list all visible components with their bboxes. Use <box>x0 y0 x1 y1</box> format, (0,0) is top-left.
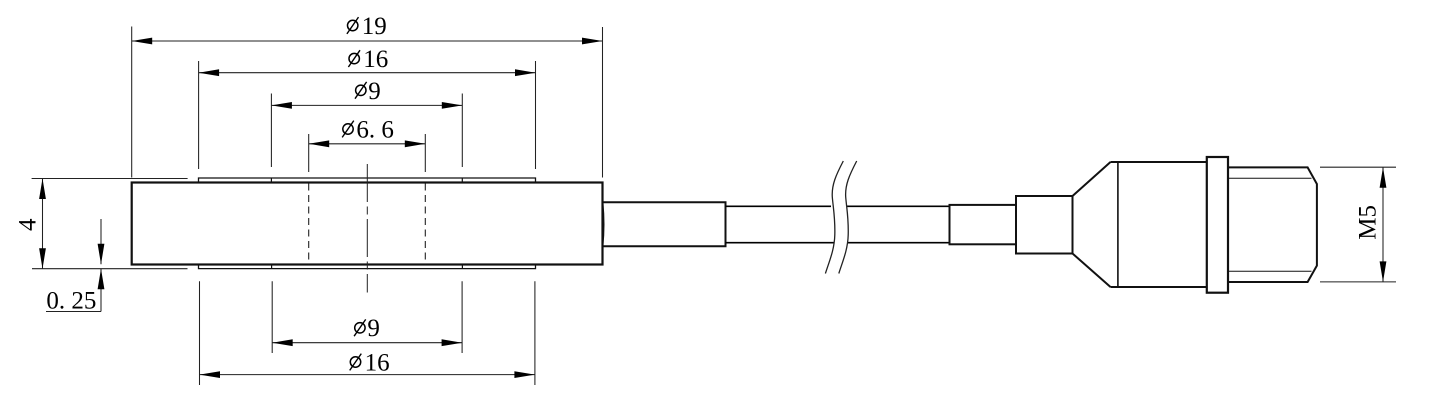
svg-text:M5: M5 <box>1355 205 1382 240</box>
svg-text:16: 16 <box>363 46 388 73</box>
connector flange <box>1207 157 1228 293</box>
cable (left of break) <box>726 206 835 242</box>
boot left moulding arc <box>603 202 604 246</box>
connector rear sleeve <box>1016 196 1073 254</box>
break wavy line left <box>825 161 843 274</box>
threaded stud M5 outline <box>1228 167 1317 282</box>
vertical centerline (chain line) <box>366 164 368 293</box>
dimension 0.25 (boss protrusion) <box>46 219 101 312</box>
svg-text:9: 9 <box>368 78 381 105</box>
dimension Ø6.6 <box>309 134 426 172</box>
dimension 4 (overall height) <box>32 179 188 269</box>
svg-text:16: 16 <box>365 349 390 376</box>
cable (right of break) <box>846 206 950 242</box>
dimension Ø16 bottom <box>200 281 535 385</box>
connector cylinder seam <box>1117 162 1119 287</box>
break wavy line right <box>839 161 857 274</box>
svg-text:19: 19 <box>362 13 387 40</box>
bottom boss inner edge ticks (Ø9) <box>272 265 463 269</box>
dimension M5 <box>1320 167 1396 282</box>
thread minor diameter lines <box>1228 178 1312 271</box>
dimension Ø16 top <box>199 61 536 169</box>
bottom boss ring (Ø16 raised face) <box>199 265 536 269</box>
connector cone taper <box>1073 162 1111 287</box>
top boss ring (Ø16 raised face) <box>199 178 536 183</box>
dimension Ø19 <box>132 27 603 178</box>
top boss inner edge ticks (Ø9) <box>271 178 462 183</box>
hidden hole lines (Ø6.6 dashed) <box>309 184 426 265</box>
connector cylinder <box>1111 162 1207 287</box>
svg-text:9: 9 <box>367 315 380 342</box>
svg-text:4: 4 <box>14 218 41 231</box>
sensor body (Ø19 disc, side view) <box>132 183 603 265</box>
cable boot (strain relief) <box>603 202 726 246</box>
cable ferrule <box>950 205 1017 244</box>
cable break symbol (white gap ribbon) <box>825 161 856 274</box>
svg-text:0. 25: 0. 25 <box>46 288 96 315</box>
svg-text:6. 6: 6. 6 <box>356 116 394 143</box>
dimension Ø9 top <box>271 94 462 168</box>
dimension Ø9 bottom <box>272 281 462 353</box>
